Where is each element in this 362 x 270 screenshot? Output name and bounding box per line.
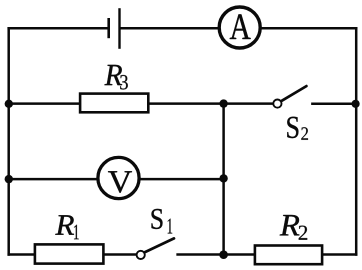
- wire top: battery to right corner: [120, 27, 356, 30]
- wire bottom: left corner to S1: [9, 253, 137, 256]
- wire right edge: [355, 28, 358, 254]
- node: left edge / R3 row: [5, 100, 13, 108]
- node: left edge / voltmeter row: [5, 175, 13, 183]
- wire row S2 to right edge: [312, 102, 356, 105]
- label R2: [280, 215, 307, 240]
- node: middle / voltmeter row: [219, 174, 227, 182]
- wire left edge: [7, 28, 10, 254]
- switch S1: [137, 238, 174, 259]
- label S1: [152, 209, 173, 234]
- wire middle vertical: [222, 104, 225, 255]
- node: middle / bottom row: [219, 250, 228, 259]
- wire voltmeter row: [9, 178, 224, 181]
- wire row R3: left edge to S2: [9, 102, 273, 105]
- label R1: [55, 215, 78, 239]
- label R3: [105, 65, 128, 90]
- battery B1: [109, 8, 120, 49]
- resistor R3: [80, 94, 148, 113]
- ammeter U-A: [219, 7, 260, 48]
- label S2: [287, 117, 308, 140]
- node: middle / R3 row: [219, 99, 227, 107]
- wire top: left corner to battery: [9, 27, 108, 30]
- node: right edge / S2 row: [352, 100, 360, 108]
- resistor R2: [255, 246, 322, 265]
- resistor R1: [35, 244, 104, 263]
- switch S2: [273, 86, 306, 108]
- voltmeter U-V: [98, 157, 139, 198]
- wire bottom: S1 to right corner: [178, 253, 357, 256]
